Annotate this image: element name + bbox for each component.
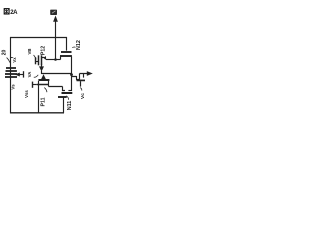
svg-text:P12: P12 bbox=[41, 46, 47, 55]
tap arrow tail tick bbox=[23, 71, 25, 77]
svg-text:Vs: Vs bbox=[11, 84, 16, 90]
transistor N12 gate bar bbox=[61, 51, 72, 53]
svg-text:2A: 2A bbox=[10, 9, 18, 16]
wire from rail corner down to N12 gate bbox=[66, 37, 68, 51]
tap arrow into crystal bbox=[18, 74, 24, 76]
transistor P11 channel bar bbox=[38, 79, 49, 81]
20 squiggle bbox=[7, 58, 10, 63]
wire from top rail down to junction bbox=[55, 38, 57, 60]
svg-text:VB: VB bbox=[27, 49, 32, 55]
N11 squiggle bbox=[66, 96, 68, 100]
P12 channel bar bbox=[41, 55, 43, 65]
bottom rail wire bbox=[10, 112, 64, 114]
crystal plate bar 4 bbox=[5, 76, 17, 78]
N11 right foot bbox=[68, 90, 72, 92]
N12 lead squiggle bbox=[72, 46, 75, 49]
Va squiggle bbox=[34, 75, 38, 77]
svg-text:N11: N11 bbox=[67, 101, 73, 111]
P12 gate terminal tick bbox=[35, 57, 37, 64]
P11 right leg bbox=[49, 81, 63, 87]
P11 gate terminal tick bbox=[32, 82, 34, 88]
node A wire bbox=[42, 73, 72, 75]
node wire between P12 drain and N12 bbox=[46, 59, 61, 61]
P12 source leg bbox=[41, 64, 43, 67]
svg-text:P11: P11 bbox=[41, 97, 47, 106]
P12 source arrow down bbox=[39, 66, 44, 71]
P12 stem to node A bbox=[41, 71, 43, 74]
transistor N12 channel bar bbox=[60, 55, 72, 57]
output transistor channel bar bbox=[77, 79, 86, 81]
top label blob bbox=[50, 10, 57, 15]
P12 gate lead bbox=[36, 61, 39, 63]
N11 gate wire to rail bbox=[63, 97, 65, 113]
output arrow head bbox=[87, 71, 93, 76]
figure title 図2A bbox=[4, 9, 18, 16]
output step wire bbox=[72, 74, 89, 80]
P11 drain arrow up bbox=[41, 74, 46, 79]
junction dot bbox=[54, 58, 57, 61]
svg-text:Vc: Vc bbox=[80, 93, 86, 99]
crystal plate bar 1 bbox=[6, 67, 16, 69]
svg-text:VA: VA bbox=[27, 72, 32, 78]
crystal plate bar 2 bbox=[6, 70, 17, 72]
svg-text:Vx: Vx bbox=[12, 57, 17, 63]
svg-text:20: 20 bbox=[2, 50, 8, 56]
N11 left leg bbox=[62, 87, 65, 92]
transistor N11 channel bar bbox=[62, 92, 73, 94]
P11 gate lead bbox=[33, 84, 37, 86]
P11 squiggle bbox=[44, 88, 47, 93]
N12 right leg long vertical wire bbox=[71, 57, 73, 92]
P12 drain leg bbox=[42, 58, 47, 60]
Vc squiggle bbox=[80, 88, 82, 91]
N11 gate bar bbox=[58, 96, 67, 98]
output gate stem bbox=[80, 81, 82, 86]
svg-text:Vss: Vss bbox=[24, 90, 29, 98]
Vx tick bbox=[11, 57, 13, 59]
P11 gate bar bbox=[37, 84, 49, 86]
crystal plate bar 3 bbox=[5, 73, 17, 75]
transistor P12 gate bar bbox=[38, 55, 40, 65]
Vb squiggle bbox=[34, 55, 37, 59]
P11 left leg to rail bbox=[38, 81, 40, 113]
node A junction dot bbox=[70, 73, 73, 76]
N12 left leg bbox=[60, 57, 62, 60]
svg-text:N12: N12 bbox=[76, 40, 82, 50]
P12 squiggle bbox=[44, 56, 45, 59]
output transistor right leg stub bbox=[83, 74, 85, 78]
left rail wire bbox=[10, 37, 12, 113]
current arrow head bbox=[53, 16, 58, 22]
current arrow stem bbox=[55, 21, 57, 38]
top rail wire bbox=[10, 37, 67, 39]
